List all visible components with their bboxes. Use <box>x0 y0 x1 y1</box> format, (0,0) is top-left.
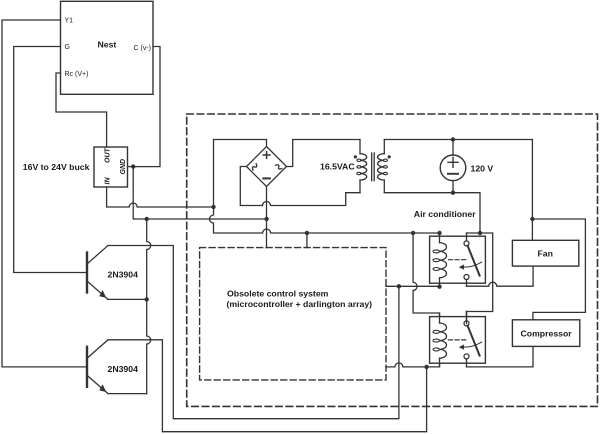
relay K2 (compressor relay) <box>430 312 486 367</box>
fan box <box>512 240 578 266</box>
wire K1 coil bottom to obsolete box stub <box>386 285 440 287</box>
node K1 coil top <box>437 231 441 235</box>
label 16.5VAC <box>320 161 355 171</box>
svg-text:G: G <box>65 44 70 51</box>
node Q1 emitter junction <box>145 297 149 301</box>
svg-text:GND: GND <box>120 159 127 175</box>
node fan/compressor branch <box>530 217 534 221</box>
node DC+ branch junction <box>305 231 309 235</box>
svg-text:Y1: Y1 <box>65 18 74 25</box>
wire K2 coil top feed (hops over K1 coil bottom wire) <box>413 233 439 317</box>
node buck IN / DC+ junction <box>211 205 215 209</box>
relay K1 (fan relay) <box>430 233 486 287</box>
svg-text:Fan: Fan <box>538 248 553 258</box>
wire K2 coil bottom to obsolete stub (hops over Q1 collector riser) <box>386 363 440 367</box>
svg-text:16V to 24V buck: 16V to 24V buck <box>23 162 90 172</box>
wire C(v-) to buck GND node <box>133 47 160 167</box>
node 120V bottom junction <box>451 191 455 195</box>
node K2 feed junction <box>411 231 415 235</box>
svg-text:(microcontroller + darlington: (microcontroller + darlington array) <box>227 299 373 309</box>
transistor Q2 2N3904 <box>87 340 138 394</box>
core <box>372 153 375 181</box>
outer dashed box (air conditioner enclosure) <box>187 114 598 406</box>
node GND / bridge DC- junction <box>264 217 268 221</box>
bridge rectifier D1 <box>247 147 287 187</box>
wire bridge AC left to transformer primary bottom <box>240 167 360 206</box>
node Q2 collector junction <box>424 365 428 369</box>
transistor Q1 2N3904 <box>87 246 138 300</box>
wire GND net down and right to bridge DC- <box>133 167 266 219</box>
svg-text:Nest: Nest <box>98 40 117 50</box>
wire common emitter vertical (hops over both collector leads) <box>147 219 151 394</box>
wire bridge DC+ up-left-down to supply rail <box>210 140 440 234</box>
primary winding <box>359 140 361 193</box>
wire secondary top to 120V and Fan <box>384 139 532 141</box>
wire Rc(V+) to buck OUT <box>56 73 107 147</box>
svg-text:16.5VAC: 16.5VAC <box>320 161 355 171</box>
node 120V top junction <box>451 137 455 141</box>
primary phase dot <box>354 155 357 158</box>
wire Q2 emitter <box>108 393 147 395</box>
svg-text:Air conditioner: Air conditioner <box>414 209 476 219</box>
label Air conditioner <box>414 209 476 219</box>
wire buck IN to bridge DC+ (hops over GND drop) <box>107 187 214 207</box>
wire branch to compressor top <box>532 219 585 320</box>
wire bridge AC right to transformer primary top <box>287 140 361 167</box>
label: Obsolete control system <box>227 289 373 309</box>
wire Q1 emitter to common emitter node <box>108 298 147 300</box>
voltage source V1 120 V <box>440 140 493 193</box>
wire K2 switch bottom to compressor <box>467 346 534 367</box>
svg-text:Rc (V+): Rc (V+) <box>65 71 89 78</box>
node K1 coil bottom <box>437 285 441 289</box>
wire buck GND stub <box>128 166 134 168</box>
wire DC+ branch down into obsolete box <box>306 233 308 248</box>
wire bridge DC- down into obsolete box <box>266 187 268 248</box>
wire fan top lead <box>531 140 533 241</box>
node GND / emitters junction <box>145 217 149 221</box>
secondary winding <box>383 140 385 193</box>
svg-text:120 V: 120 V <box>471 163 494 173</box>
secondary phase dot <box>388 155 391 158</box>
wire Q2 collector to relay K2 coil bottom <box>108 340 427 432</box>
nest thermostat U1 <box>61 1 154 94</box>
wire secondary bottom (AC hot) to relay commons <box>384 193 480 233</box>
svg-text:OUT: OUT <box>105 148 112 164</box>
svg-text:Compressor: Compressor <box>521 328 573 338</box>
node Q1 collector / obsolete stub junction <box>397 284 401 288</box>
svg-text:2N3904: 2N3904 <box>108 364 139 374</box>
buck converter U2 (16V to 24V buck) <box>94 147 128 187</box>
wire G to Q1 base <box>14 47 87 273</box>
wire K2 switch stub top <box>466 312 468 324</box>
wire K1 switch bottom to Fan (hops over hot drop) <box>467 266 534 286</box>
svg-text:C (v-): C (v-) <box>134 45 152 52</box>
transformer T1 <box>320 140 391 193</box>
node AC hot / switch rail junction <box>478 231 482 235</box>
node buck GND junction <box>131 164 135 168</box>
svg-text:IN: IN <box>105 177 112 185</box>
wire switch rail right segment <box>467 233 493 317</box>
svg-text:2N3904: 2N3904 <box>108 270 139 280</box>
compressor box <box>512 320 579 347</box>
inner dashed box (obsolete control system) <box>200 248 386 380</box>
svg-text:Obsolete control system: Obsolete control system <box>227 289 329 299</box>
wire Q1 collector to relay K1 coil bottom <box>108 246 399 419</box>
wire Y1 to Q2 base <box>2 20 87 367</box>
